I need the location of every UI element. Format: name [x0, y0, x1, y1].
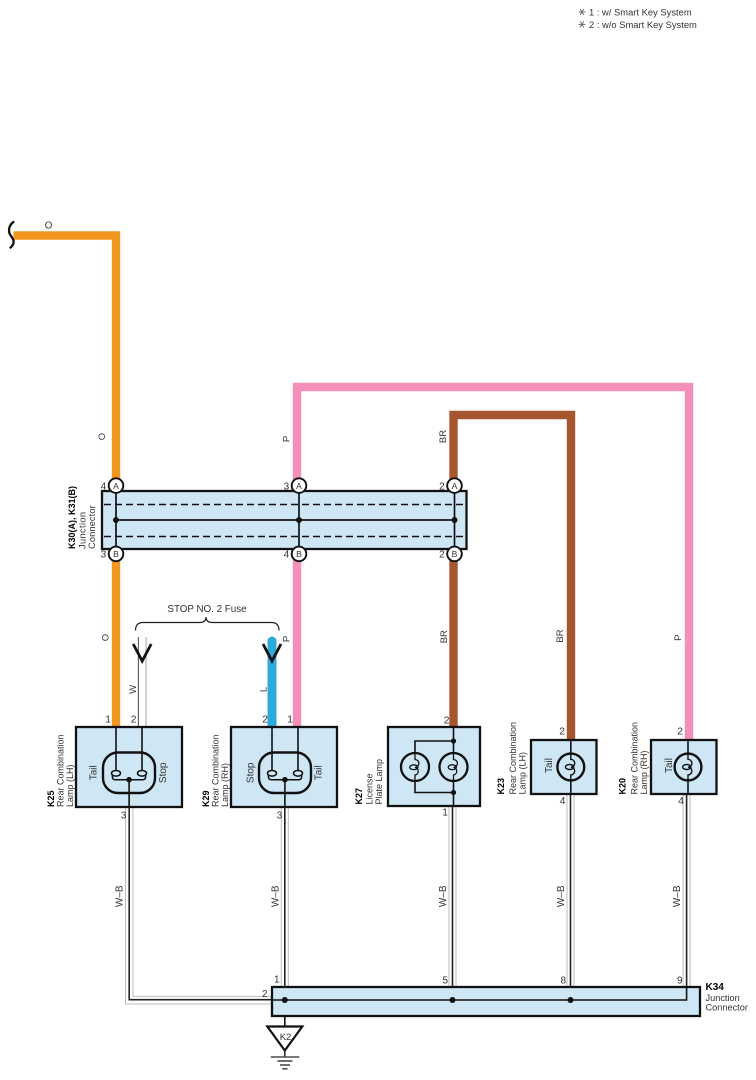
- svg-text:Junction: Junction: [706, 993, 740, 1003]
- svg-text:1: 1: [105, 715, 111, 726]
- svg-text:B: B: [113, 549, 119, 559]
- svg-text:B: B: [296, 549, 302, 559]
- svg-text:1: 1: [442, 808, 448, 819]
- svg-text:2: 2: [444, 716, 450, 727]
- svg-text:B: B: [452, 549, 458, 559]
- svg-text:4: 4: [560, 796, 566, 807]
- svg-text:1: 1: [274, 975, 280, 986]
- svg-text:Lamp (LH): Lamp (LH): [65, 764, 75, 807]
- svg-text:9: 9: [677, 976, 683, 987]
- svg-text:BR: BR: [438, 430, 449, 443]
- svg-text:Connector: Connector: [87, 505, 97, 549]
- svg-text:K34: K34: [706, 982, 725, 993]
- svg-text:K27: K27: [354, 788, 364, 805]
- svg-text:K23: K23: [496, 778, 506, 795]
- svg-text:W–B: W–B: [556, 885, 567, 907]
- svg-text:Tail: Tail: [664, 758, 675, 773]
- svg-text:Plate Lamp: Plate Lamp: [374, 759, 384, 805]
- svg-text:1: 1: [287, 715, 293, 726]
- svg-text:BR: BR: [555, 629, 566, 642]
- svg-text:STOP NO. 2 Fuse: STOP NO. 2 Fuse: [167, 604, 247, 615]
- svg-text:License: License: [365, 773, 375, 804]
- svg-text:3: 3: [284, 482, 290, 493]
- svg-text:W–B: W–B: [270, 885, 281, 907]
- svg-text:2: 2: [262, 989, 268, 1000]
- svg-text:2: 2: [559, 727, 565, 738]
- svg-text:BR: BR: [439, 630, 450, 643]
- svg-text:P: P: [282, 436, 293, 442]
- svg-text:K20: K20: [618, 778, 628, 795]
- svg-text:2: 2: [439, 482, 445, 493]
- svg-text:P: P: [282, 636, 293, 642]
- svg-text:Junction: Junction: [78, 512, 88, 549]
- svg-text:A: A: [113, 481, 119, 491]
- svg-text:K29: K29: [201, 790, 211, 807]
- svg-text:O: O: [101, 634, 112, 641]
- svg-text:W–B: W–B: [672, 885, 683, 907]
- svg-text:Tail: Tail: [89, 765, 100, 780]
- svg-text:Rear Combination: Rear Combination: [56, 734, 66, 807]
- svg-text:1 : w/ Smart Key System: 1 : w/ Smart Key System: [589, 7, 692, 18]
- svg-text:2: 2: [262, 715, 268, 726]
- svg-text:8: 8: [560, 976, 566, 987]
- svg-text:2 : w/o Smart Key System: 2 : w/o Smart Key System: [589, 19, 697, 30]
- svg-text:Tail: Tail: [314, 765, 325, 780]
- svg-text:O: O: [97, 433, 108, 440]
- svg-text:W: W: [128, 685, 139, 694]
- svg-text:Stop: Stop: [158, 762, 169, 783]
- svg-text:Stop: Stop: [246, 762, 257, 783]
- svg-text:W–B: W–B: [115, 885, 126, 907]
- svg-text:4: 4: [284, 550, 290, 561]
- svg-text:L: L: [259, 687, 270, 692]
- svg-text:Lamp (RH): Lamp (RH): [639, 750, 649, 794]
- svg-text:Lamp (RH): Lamp (RH): [220, 763, 230, 807]
- svg-text:K2: K2: [280, 1032, 292, 1043]
- svg-text:P: P: [673, 635, 684, 641]
- svg-text:2: 2: [677, 727, 683, 738]
- svg-text:Rear Combination: Rear Combination: [508, 722, 518, 795]
- svg-text:W–B: W–B: [438, 885, 449, 907]
- svg-text:O: O: [45, 221, 53, 232]
- svg-text:3: 3: [121, 811, 127, 822]
- svg-text:3: 3: [277, 811, 283, 822]
- svg-text:Lamp (LH): Lamp (LH): [518, 752, 528, 795]
- svg-text:Tail: Tail: [544, 758, 555, 773]
- svg-text:K25: K25: [46, 790, 56, 807]
- svg-text:4: 4: [101, 482, 107, 493]
- svg-text:4: 4: [678, 796, 684, 807]
- svg-text:2: 2: [131, 715, 137, 726]
- svg-text:5: 5: [442, 976, 448, 987]
- svg-text:Connector: Connector: [706, 1003, 748, 1013]
- svg-text:A: A: [452, 481, 458, 491]
- svg-text:Rear Combination: Rear Combination: [630, 722, 640, 795]
- svg-text:2: 2: [439, 550, 445, 561]
- svg-text:3: 3: [101, 550, 107, 561]
- svg-text:K30(A), K31(B): K30(A), K31(B): [67, 486, 77, 549]
- svg-text:A: A: [296, 481, 302, 491]
- svg-text:Rear Combination: Rear Combination: [211, 734, 221, 807]
